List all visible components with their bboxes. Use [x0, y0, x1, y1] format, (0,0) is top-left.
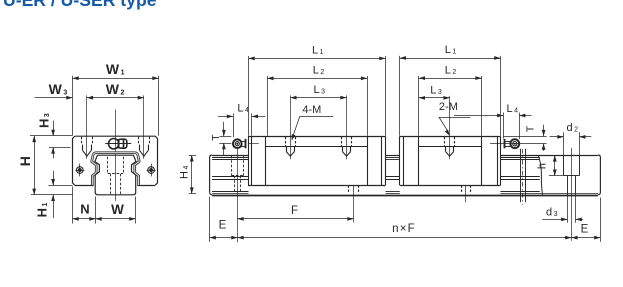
svg-text:E: E: [581, 224, 589, 236]
svg-text:L3: L3: [314, 84, 326, 96]
svg-text:W3: W3: [49, 81, 68, 97]
svg-text:T: T: [525, 125, 537, 132]
svg-text:L3: L3: [430, 85, 442, 97]
svg-text:F: F: [291, 205, 298, 217]
svg-text:W1: W1: [106, 61, 125, 77]
svg-text:2-M: 2-M: [439, 101, 458, 113]
svg-text:W: W: [111, 202, 124, 217]
svg-text:L4: L4: [237, 103, 249, 115]
svg-text:n×F: n×F: [392, 223, 416, 235]
svg-text:d3: d3: [546, 207, 558, 219]
svg-text:W2: W2: [106, 81, 125, 97]
svg-text:L4: L4: [507, 103, 519, 115]
svg-text:h: h: [537, 163, 549, 169]
svg-text:H1: H1: [35, 203, 50, 218]
svg-text:4-M: 4-M: [302, 104, 321, 116]
svg-text:L2: L2: [445, 65, 457, 77]
svg-text:N: N: [80, 202, 89, 217]
svg-text:H: H: [17, 156, 33, 166]
svg-text:L1: L1: [445, 44, 457, 56]
svg-text:L2: L2: [313, 65, 325, 77]
svg-text:T: T: [210, 134, 222, 141]
svg-text:d2: d2: [567, 122, 579, 134]
svg-text:H4: H4: [179, 166, 191, 179]
svg-text:H3: H3: [36, 113, 51, 128]
svg-text:E: E: [219, 220, 227, 232]
svg-text:L1: L1: [312, 44, 324, 56]
